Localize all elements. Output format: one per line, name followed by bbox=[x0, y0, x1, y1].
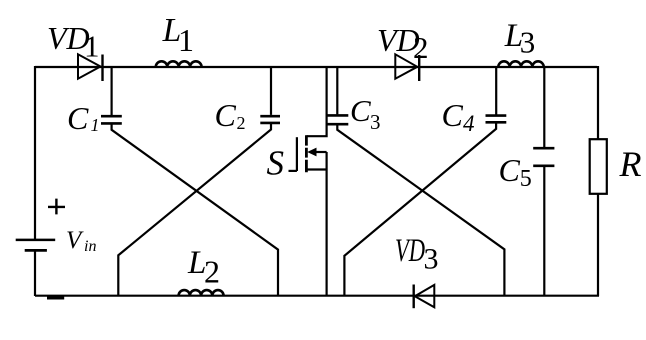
inductor L3 bbox=[498, 61, 543, 67]
inductor L1 bbox=[156, 61, 202, 67]
diode VD1 triangle bbox=[78, 54, 101, 78]
diode VD3 cathode bar bbox=[413, 285, 415, 309]
wire left rail upper (to battery) bbox=[34, 66, 36, 240]
svg-text:C: C bbox=[442, 97, 464, 133]
svg-text:3: 3 bbox=[520, 25, 536, 60]
svg-text:C: C bbox=[215, 97, 237, 133]
wire right rail upper (to R) bbox=[597, 66, 599, 140]
svg-text:3: 3 bbox=[424, 243, 439, 276]
svg-text:3: 3 bbox=[370, 110, 381, 134]
svg-text:4: 4 bbox=[463, 111, 475, 136]
svg-text:V: V bbox=[66, 227, 84, 254]
svg-text:1: 1 bbox=[178, 22, 194, 58]
battery Vin plate long bbox=[16, 239, 56, 242]
svg-text:C: C bbox=[350, 93, 371, 128]
inductor L2 bbox=[179, 290, 224, 296]
wire bottom rail bbox=[35, 295, 599, 297]
svg-text:C: C bbox=[499, 152, 521, 188]
capacitor C3 plates bbox=[326, 115, 349, 124]
capacitor C1 plates bbox=[101, 116, 122, 123]
svg-text:in: in bbox=[84, 238, 96, 255]
plus sign bbox=[48, 199, 65, 215]
capacitor C5 lead lower bbox=[543, 167, 545, 296]
capacitor C4 plates bbox=[486, 116, 507, 123]
transistor S gate stub bbox=[289, 170, 297, 172]
svg-text:VD: VD bbox=[395, 233, 425, 269]
diode VD3 triangle bbox=[415, 285, 435, 307]
svg-text:2: 2 bbox=[204, 254, 220, 290]
svg-text:1: 1 bbox=[84, 29, 100, 64]
svg-text:C: C bbox=[67, 100, 89, 136]
capacitor C4 lead bbox=[495, 67, 497, 115]
wire top rail bbox=[35, 66, 597, 68]
capacitor C2 plates bbox=[260, 116, 280, 123]
capacitor C2 lead bbox=[270, 67, 272, 115]
svg-text:2: 2 bbox=[237, 113, 246, 133]
wire source to bottom bbox=[326, 152, 328, 296]
diode VD2 cathode bar bbox=[418, 55, 420, 81]
svg-text:S: S bbox=[267, 143, 285, 182]
capacitor C5 plates bbox=[533, 148, 554, 166]
svg-text:5: 5 bbox=[520, 166, 532, 192]
diode VD2 triangle bbox=[395, 54, 417, 78]
wire diagonal C2 to bottom bbox=[118, 123, 271, 296]
diode VD1 cathode bar bbox=[101, 55, 103, 82]
wire diagonal C3 to bottom bbox=[337, 124, 504, 296]
resistor R body bbox=[590, 139, 607, 194]
minus sign bbox=[47, 297, 64, 300]
svg-text:1: 1 bbox=[91, 115, 100, 135]
battery Vin plate short bbox=[25, 249, 47, 252]
svg-text:2: 2 bbox=[413, 30, 429, 65]
capacitor C3 lead bbox=[336, 67, 338, 114]
transistor S source lead bbox=[307, 168, 327, 170]
capacitor C5 lead upper bbox=[543, 67, 545, 147]
wire left rail lower (battery to bottom) bbox=[34, 250, 36, 296]
capacitor C1 lead bbox=[110, 67, 112, 115]
wire diagonal C1 to bottom bbox=[112, 123, 278, 295]
transistor S channel segments bbox=[305, 135, 308, 172]
transistor S gate bar bbox=[296, 137, 298, 171]
transistor S drain lead bbox=[307, 67, 327, 136]
svg-text:R: R bbox=[619, 144, 642, 184]
transistor S body line with arrow bbox=[313, 151, 327, 153]
wire diagonal C4 to bottom bbox=[344, 122, 496, 295]
wire right rail lower (R to bottom) bbox=[597, 194, 599, 296]
